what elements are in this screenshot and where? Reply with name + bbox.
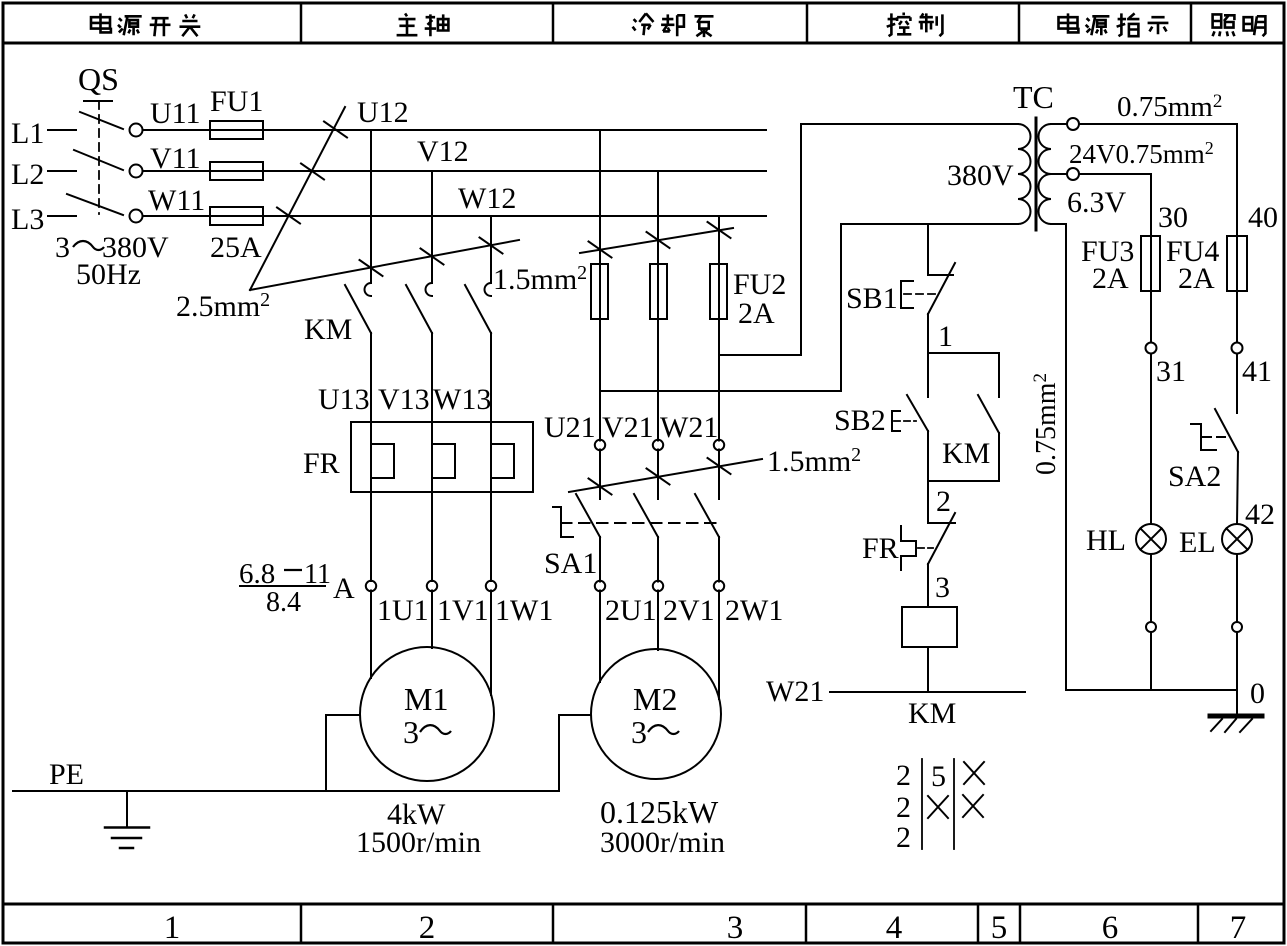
svg-text:SB1: SB1 bbox=[846, 282, 898, 315]
svg-text:1W1: 1W1 bbox=[495, 594, 553, 627]
contactor coil KM bbox=[902, 607, 957, 647]
switch QS linkage dashed bbox=[98, 101, 100, 214]
svg-text:W13: W13 bbox=[433, 383, 491, 416]
wire below EL bbox=[1236, 554, 1238, 622]
terminal circle sec mid bbox=[1067, 168, 1079, 180]
wire U13 bbox=[370, 333, 372, 581]
svg-text:6.3V: 6.3V bbox=[1067, 186, 1127, 219]
wire HL to 0 bus bbox=[1150, 632, 1152, 690]
terminal circle 41 bbox=[1232, 343, 1243, 354]
wire EL to 0 bus bbox=[1236, 632, 1238, 690]
svg-text:0: 0 bbox=[1250, 677, 1265, 710]
svg-text:KM: KM bbox=[304, 313, 352, 346]
svg-text:SA1: SA1 bbox=[544, 547, 597, 580]
svg-text:V11: V11 bbox=[150, 142, 201, 175]
terminal circle below HL bbox=[1146, 622, 1156, 632]
wire 42 bbox=[1237, 452, 1238, 524]
wire W21 return stub bbox=[830, 691, 1025, 693]
tick on FU2 feeder wire 2 bbox=[647, 232, 670, 248]
header title: zhaoming (lighting) bbox=[1213, 14, 1235, 36]
transformer TC primary coil bbox=[1018, 124, 1030, 224]
svg-text:2: 2 bbox=[419, 910, 436, 946]
transformer TC core bbox=[1035, 118, 1038, 230]
tick on KM feeder wire 3 bbox=[480, 238, 503, 254]
svg-text:0.75mm2: 0.75mm2 bbox=[1117, 91, 1222, 123]
wire 31 to lamp HL bbox=[1150, 354, 1152, 525]
wire W11 bbox=[143, 215, 263, 217]
switch QS pole 3 contact circle bbox=[130, 210, 143, 223]
fuse FU2 drop wire V bbox=[657, 171, 659, 441]
svg-text:PE: PE bbox=[49, 758, 84, 791]
svg-text:5: 5 bbox=[931, 760, 946, 793]
SB1 linkage dashed bbox=[904, 293, 937, 295]
FR heater element 3 bbox=[491, 444, 514, 478]
pushbutton SB2 actuator bbox=[892, 411, 900, 431]
terminal 2U1 circle bbox=[595, 581, 605, 591]
svg-text:1.5mm2: 1.5mm2 bbox=[767, 444, 861, 478]
svg-text:1: 1 bbox=[164, 910, 181, 946]
wire 0 bus bottom bbox=[1066, 689, 1237, 691]
thermal relay FR box bbox=[351, 422, 533, 492]
svg-text:41: 41 bbox=[1242, 355, 1272, 388]
tick on KM feeder wire 1 bbox=[360, 260, 383, 276]
conductor count table vertical line 2 bbox=[953, 759, 955, 849]
wire SB2 bottom bbox=[927, 431, 929, 481]
table X mark row1 col3 bbox=[964, 762, 984, 784]
wire 2U1 to motor bbox=[599, 591, 601, 683]
wire U12 bbox=[263, 129, 766, 131]
SB2 linkage dashed bbox=[894, 420, 916, 422]
table X mark row2 col2 bbox=[928, 796, 948, 818]
lamp HL bbox=[1136, 524, 1166, 554]
tick on SA1 feeder wire 3 bbox=[708, 458, 731, 474]
fraction bar bbox=[239, 585, 326, 587]
svg-text:8.4: 8.4 bbox=[266, 587, 301, 618]
fuse FU1 pole 2 bbox=[210, 162, 263, 180]
svg-text:2A: 2A bbox=[1178, 262, 1215, 295]
wire U11 bbox=[143, 129, 263, 131]
svg-text:5: 5 bbox=[991, 910, 1008, 946]
svg-text:3: 3 bbox=[403, 714, 419, 750]
svg-text:1: 1 bbox=[938, 320, 953, 353]
lamp EL bbox=[1222, 524, 1252, 554]
contactor KM main contact 2 blade bbox=[406, 285, 432, 333]
svg-text:2: 2 bbox=[896, 791, 911, 824]
svg-text:2: 2 bbox=[936, 485, 951, 518]
svg-text:W12: W12 bbox=[458, 182, 516, 215]
fuse FU1 pole 1 bbox=[210, 121, 263, 139]
svg-text:31: 31 bbox=[1156, 355, 1186, 388]
wire 1V1 to motor bbox=[431, 591, 433, 649]
svg-text:FU1: FU1 bbox=[210, 85, 263, 118]
svg-text:2: 2 bbox=[896, 821, 911, 854]
svg-text:SA2: SA2 bbox=[1168, 460, 1221, 493]
svg-text:FR: FR bbox=[303, 447, 340, 480]
switch QS pole 2 blade bbox=[74, 150, 123, 170]
switch QS pole 1 contact circle bbox=[130, 124, 143, 137]
svg-text:SB2: SB2 bbox=[834, 404, 886, 437]
svg-text:W21: W21 bbox=[766, 675, 824, 708]
header title: dianyuan zhishi (power indication) bbox=[1059, 13, 1079, 32]
terminal 1U1 circle bbox=[366, 581, 376, 591]
wire U12 drop to KM bbox=[370, 130, 372, 283]
wire L2 input stub bbox=[48, 170, 76, 172]
switch QS top bar bbox=[84, 100, 112, 102]
CONTROL CIRCUIT bbox=[830, 118, 1262, 849]
svg-text:4: 4 bbox=[886, 910, 903, 946]
pushbutton SB1 blade bbox=[928, 263, 955, 314]
wire 41 to SA2 bbox=[1236, 354, 1238, 414]
terminal circle 31 bbox=[1146, 343, 1157, 354]
cable marker 1.5mm2 diagonal (KM feeder) bbox=[250, 240, 519, 290]
wire KM aux bottom bbox=[998, 433, 1000, 481]
cable marker 2.5mm2 tick 3 bbox=[277, 208, 300, 224]
switch SA1 pole 2 blade bbox=[634, 494, 658, 537]
svg-text:V21: V21 bbox=[602, 411, 654, 444]
switch QS pole 2 contact circle bbox=[130, 165, 143, 178]
footer zone numbers bbox=[164, 910, 1247, 946]
svg-text:A: A bbox=[333, 572, 355, 605]
switch QS pole 1 blade bbox=[80, 112, 123, 129]
fuse FU2 pole 2 bbox=[650, 264, 667, 319]
contactor KM aux contact blade bbox=[978, 395, 999, 433]
cable marker 2.5mm2 diagonal bbox=[250, 107, 345, 290]
svg-text:3: 3 bbox=[631, 714, 647, 750]
FR contact seat bbox=[928, 522, 955, 524]
wire 1U1 to motor bbox=[370, 591, 372, 679]
terminal 2W1 circle bbox=[714, 581, 724, 591]
wire SA1 pole 3 lower bbox=[718, 537, 720, 582]
FR heater element 2 bbox=[432, 444, 455, 478]
svg-text:M2: M2 bbox=[633, 681, 677, 717]
svg-text:0.125kW: 0.125kW bbox=[600, 794, 719, 830]
wire 40 horizontal 0.75mm2 bbox=[1079, 124, 1237, 343]
svg-text:3: 3 bbox=[935, 571, 950, 604]
svg-text:3: 3 bbox=[55, 231, 70, 264]
svg-text:V13: V13 bbox=[378, 383, 430, 416]
tick on FU2 feeder wire 3 bbox=[708, 222, 731, 238]
svg-text:6: 6 bbox=[1102, 910, 1119, 946]
wire rejoin node 2 bbox=[928, 480, 999, 482]
svg-text:1V1: 1V1 bbox=[437, 594, 489, 627]
wire SA1 pole 2 lower bbox=[657, 537, 659, 582]
switch SA2 linkage dashed bbox=[1203, 436, 1231, 438]
svg-text:U13: U13 bbox=[318, 383, 370, 416]
HEADER CJK TITLES drawn as strokes bbox=[91, 13, 1265, 38]
wire TC bottom to SB1 bbox=[927, 224, 929, 264]
wire V12 drop to KM bbox=[431, 171, 433, 283]
contactor KM main contact 3 blade bbox=[465, 285, 491, 333]
svg-text:L1: L1 bbox=[11, 117, 44, 150]
tick on FU2 feeder wire 1 bbox=[589, 242, 612, 258]
svg-text:KM: KM bbox=[942, 437, 990, 470]
svg-text:25A: 25A bbox=[210, 231, 262, 264]
svg-text:3: 3 bbox=[727, 910, 744, 946]
terminal 2V1 circle bbox=[653, 581, 663, 591]
switch SA1 handle bbox=[553, 507, 573, 537]
wire W12 bbox=[263, 215, 766, 217]
cable marker 2.5mm2 tick 2 bbox=[301, 164, 324, 180]
switch SA2 blade bbox=[1215, 409, 1238, 452]
FR heater element 1 bbox=[371, 444, 394, 478]
cable marker 1.5mm2 diagonal (FU2 feeder) bbox=[580, 228, 733, 253]
wire SB2 top bbox=[927, 353, 929, 397]
contactor KM main contact 2 arc bbox=[426, 283, 433, 296]
pushbutton SB2 blade bbox=[907, 395, 928, 431]
wire below HL bbox=[1150, 554, 1152, 622]
wire 30 horizontal 24V bbox=[1079, 174, 1151, 343]
wire PE bus bbox=[13, 790, 559, 792]
svg-text:2A: 2A bbox=[738, 297, 775, 330]
wire node 2 down bbox=[927, 481, 929, 523]
transformer TC secondary coil bbox=[1039, 124, 1052, 224]
TC secondary mid tap lead bbox=[1051, 173, 1067, 175]
terminal U21 circle bbox=[595, 440, 605, 450]
wire 1W1 to motor bbox=[490, 591, 492, 696]
motor M2 circle bbox=[591, 649, 721, 779]
header title: dianyuan kaiguan (power switch) bbox=[91, 13, 111, 32]
chassis ground symbol bbox=[1236, 690, 1238, 714]
switch SA1 pole 3 blade bbox=[695, 494, 719, 537]
fuse FU2 pole 3 bbox=[710, 264, 727, 319]
header title: kongzhi (control) bbox=[887, 13, 912, 37]
switch SA1 pole 1 blade bbox=[576, 494, 600, 537]
svg-text:L3: L3 bbox=[11, 203, 44, 236]
M2 PE bond wire bbox=[559, 715, 591, 791]
svg-text:2W1: 2W1 bbox=[725, 594, 783, 627]
svg-text:24V0.75mm2: 24V0.75mm2 bbox=[1069, 138, 1214, 169]
terminal circle below EL bbox=[1232, 622, 1242, 632]
wire W12 drop to KM bbox=[490, 216, 492, 283]
header title: lengquebeng (coolant pump) bbox=[633, 13, 654, 35]
tick on KM feeder wire 2 bbox=[421, 249, 444, 265]
wire W13 bbox=[490, 333, 492, 581]
terminal W21 circle bbox=[714, 440, 724, 450]
fuse FU2 drop wire U bbox=[599, 130, 601, 441]
svg-text:V12: V12 bbox=[417, 135, 469, 168]
svg-text:42: 42 bbox=[1245, 498, 1275, 531]
contactor KM main contact 3 arc bbox=[485, 283, 491, 296]
contactor KM main contact 1 arc bbox=[365, 283, 372, 296]
svg-text:U12: U12 bbox=[357, 96, 409, 129]
wire V13 bbox=[431, 333, 433, 581]
switch QS pole 3 blade bbox=[67, 194, 123, 215]
cable marker 1.5mm2 diagonal (SA1 feeder) bbox=[569, 459, 762, 492]
svg-text:0.75mm2: 0.75mm2 bbox=[1030, 373, 1062, 475]
wire SA1 pole 1 lower bbox=[599, 537, 601, 582]
terminal 1V1 circle bbox=[427, 581, 437, 591]
svg-text:380V: 380V bbox=[947, 159, 1014, 192]
fuse FU1 pole 3 bbox=[210, 207, 263, 225]
terminal V21 circle bbox=[653, 440, 663, 450]
svg-text:2A: 2A bbox=[1092, 262, 1129, 295]
svg-text:M1: M1 bbox=[404, 681, 448, 717]
TC secondary 24V top lead bbox=[1051, 123, 1067, 125]
svg-text:1500r/min: 1500r/min bbox=[356, 826, 481, 859]
M1 PE bond wire bbox=[326, 715, 360, 791]
wire node 3 bbox=[927, 564, 929, 607]
svg-text:2V1: 2V1 bbox=[663, 594, 715, 627]
fuse FU4 bbox=[1227, 236, 1247, 291]
svg-text:50Hz: 50Hz bbox=[76, 258, 141, 291]
ground symbol on PE bbox=[126, 791, 128, 826]
tick on SA1 feeder wire 2 bbox=[647, 469, 670, 485]
svg-text:7: 7 bbox=[1230, 910, 1247, 946]
pushbutton SB1 actuator bbox=[901, 281, 913, 308]
fuse FU2 pole 1 bbox=[591, 264, 608, 319]
footer column dividers bbox=[301, 904, 1198, 943]
wire node 1 bbox=[927, 314, 929, 353]
wire coil to W21 bbox=[927, 647, 929, 692]
header title: zhuzhou (spindle) bbox=[397, 13, 418, 35]
fuse FU3 bbox=[1141, 236, 1160, 291]
wire V11 bbox=[143, 170, 263, 172]
table X mark row2 col3 bbox=[963, 795, 983, 817]
svg-text:2U1: 2U1 bbox=[605, 594, 657, 627]
svg-text:L2: L2 bbox=[11, 158, 44, 191]
wire U21 to SA1 bbox=[599, 450, 601, 500]
svg-text:TC: TC bbox=[1013, 79, 1054, 115]
FR contact blade bbox=[928, 513, 955, 564]
switch SA1 linkage dashed bbox=[561, 522, 716, 524]
wire 2V1 to motor bbox=[657, 591, 659, 651]
wire 0 from TC secondary bottom bbox=[1051, 224, 1066, 690]
terminal 1W1 circle bbox=[486, 581, 496, 591]
svg-text:2: 2 bbox=[896, 759, 911, 792]
wire W-phase to TC primary top bbox=[719, 124, 1018, 355]
FR linkage dashed bbox=[918, 547, 933, 549]
wire L3 input stub bbox=[48, 215, 76, 217]
svg-text:QS: QS bbox=[78, 61, 119, 97]
wire V12 bbox=[263, 170, 766, 172]
branch node 1 to KM aux bbox=[928, 353, 999, 397]
motor M1 circle bbox=[360, 647, 494, 781]
wire 2W1 to motor bbox=[718, 591, 720, 700]
svg-text:3000r/min: 3000r/min bbox=[600, 826, 725, 859]
svg-text:1.5mm2: 1.5mm2 bbox=[493, 262, 587, 296]
switch SA2 handle bbox=[1191, 424, 1216, 450]
svg-text:2.5mm2: 2.5mm2 bbox=[176, 289, 270, 323]
contactor KM main contact 1 blade bbox=[345, 285, 371, 333]
wire V21 to SA1 bbox=[657, 450, 659, 500]
svg-text:30: 30 bbox=[1158, 201, 1188, 234]
FR thermal hook symbol bbox=[901, 526, 916, 570]
wire W21 to SA1 bbox=[718, 450, 720, 500]
terminal circle sec top bbox=[1067, 118, 1079, 130]
svg-text:KM: KM bbox=[908, 697, 956, 730]
conductor count table vertical line 1 bbox=[921, 759, 923, 849]
svg-text:40: 40 bbox=[1248, 201, 1278, 234]
svg-text:FR: FR bbox=[862, 532, 899, 565]
svg-text:W11: W11 bbox=[148, 184, 205, 217]
cable marker 2.5mm2 tick 1 bbox=[324, 122, 347, 138]
svg-text:U21: U21 bbox=[544, 411, 596, 444]
svg-text:HL: HL bbox=[1086, 524, 1126, 557]
wire U-phase junction to TC primary bottom bbox=[600, 224, 1018, 391]
svg-text:W21: W21 bbox=[660, 411, 718, 444]
svg-text:EL: EL bbox=[1179, 526, 1216, 559]
MAIN POWER CIRCUIT bbox=[13, 101, 1018, 848]
pushbutton SB1 seat bbox=[928, 264, 953, 275]
svg-text:U11: U11 bbox=[150, 97, 201, 130]
fuse FU2 drop wire W bbox=[718, 216, 720, 441]
header column dividers bbox=[301, 3, 1191, 43]
svg-text:1U1: 1U1 bbox=[377, 594, 429, 627]
tick on SA1 feeder wire 1 bbox=[589, 479, 612, 495]
wire L1 input stub bbox=[48, 129, 76, 131]
